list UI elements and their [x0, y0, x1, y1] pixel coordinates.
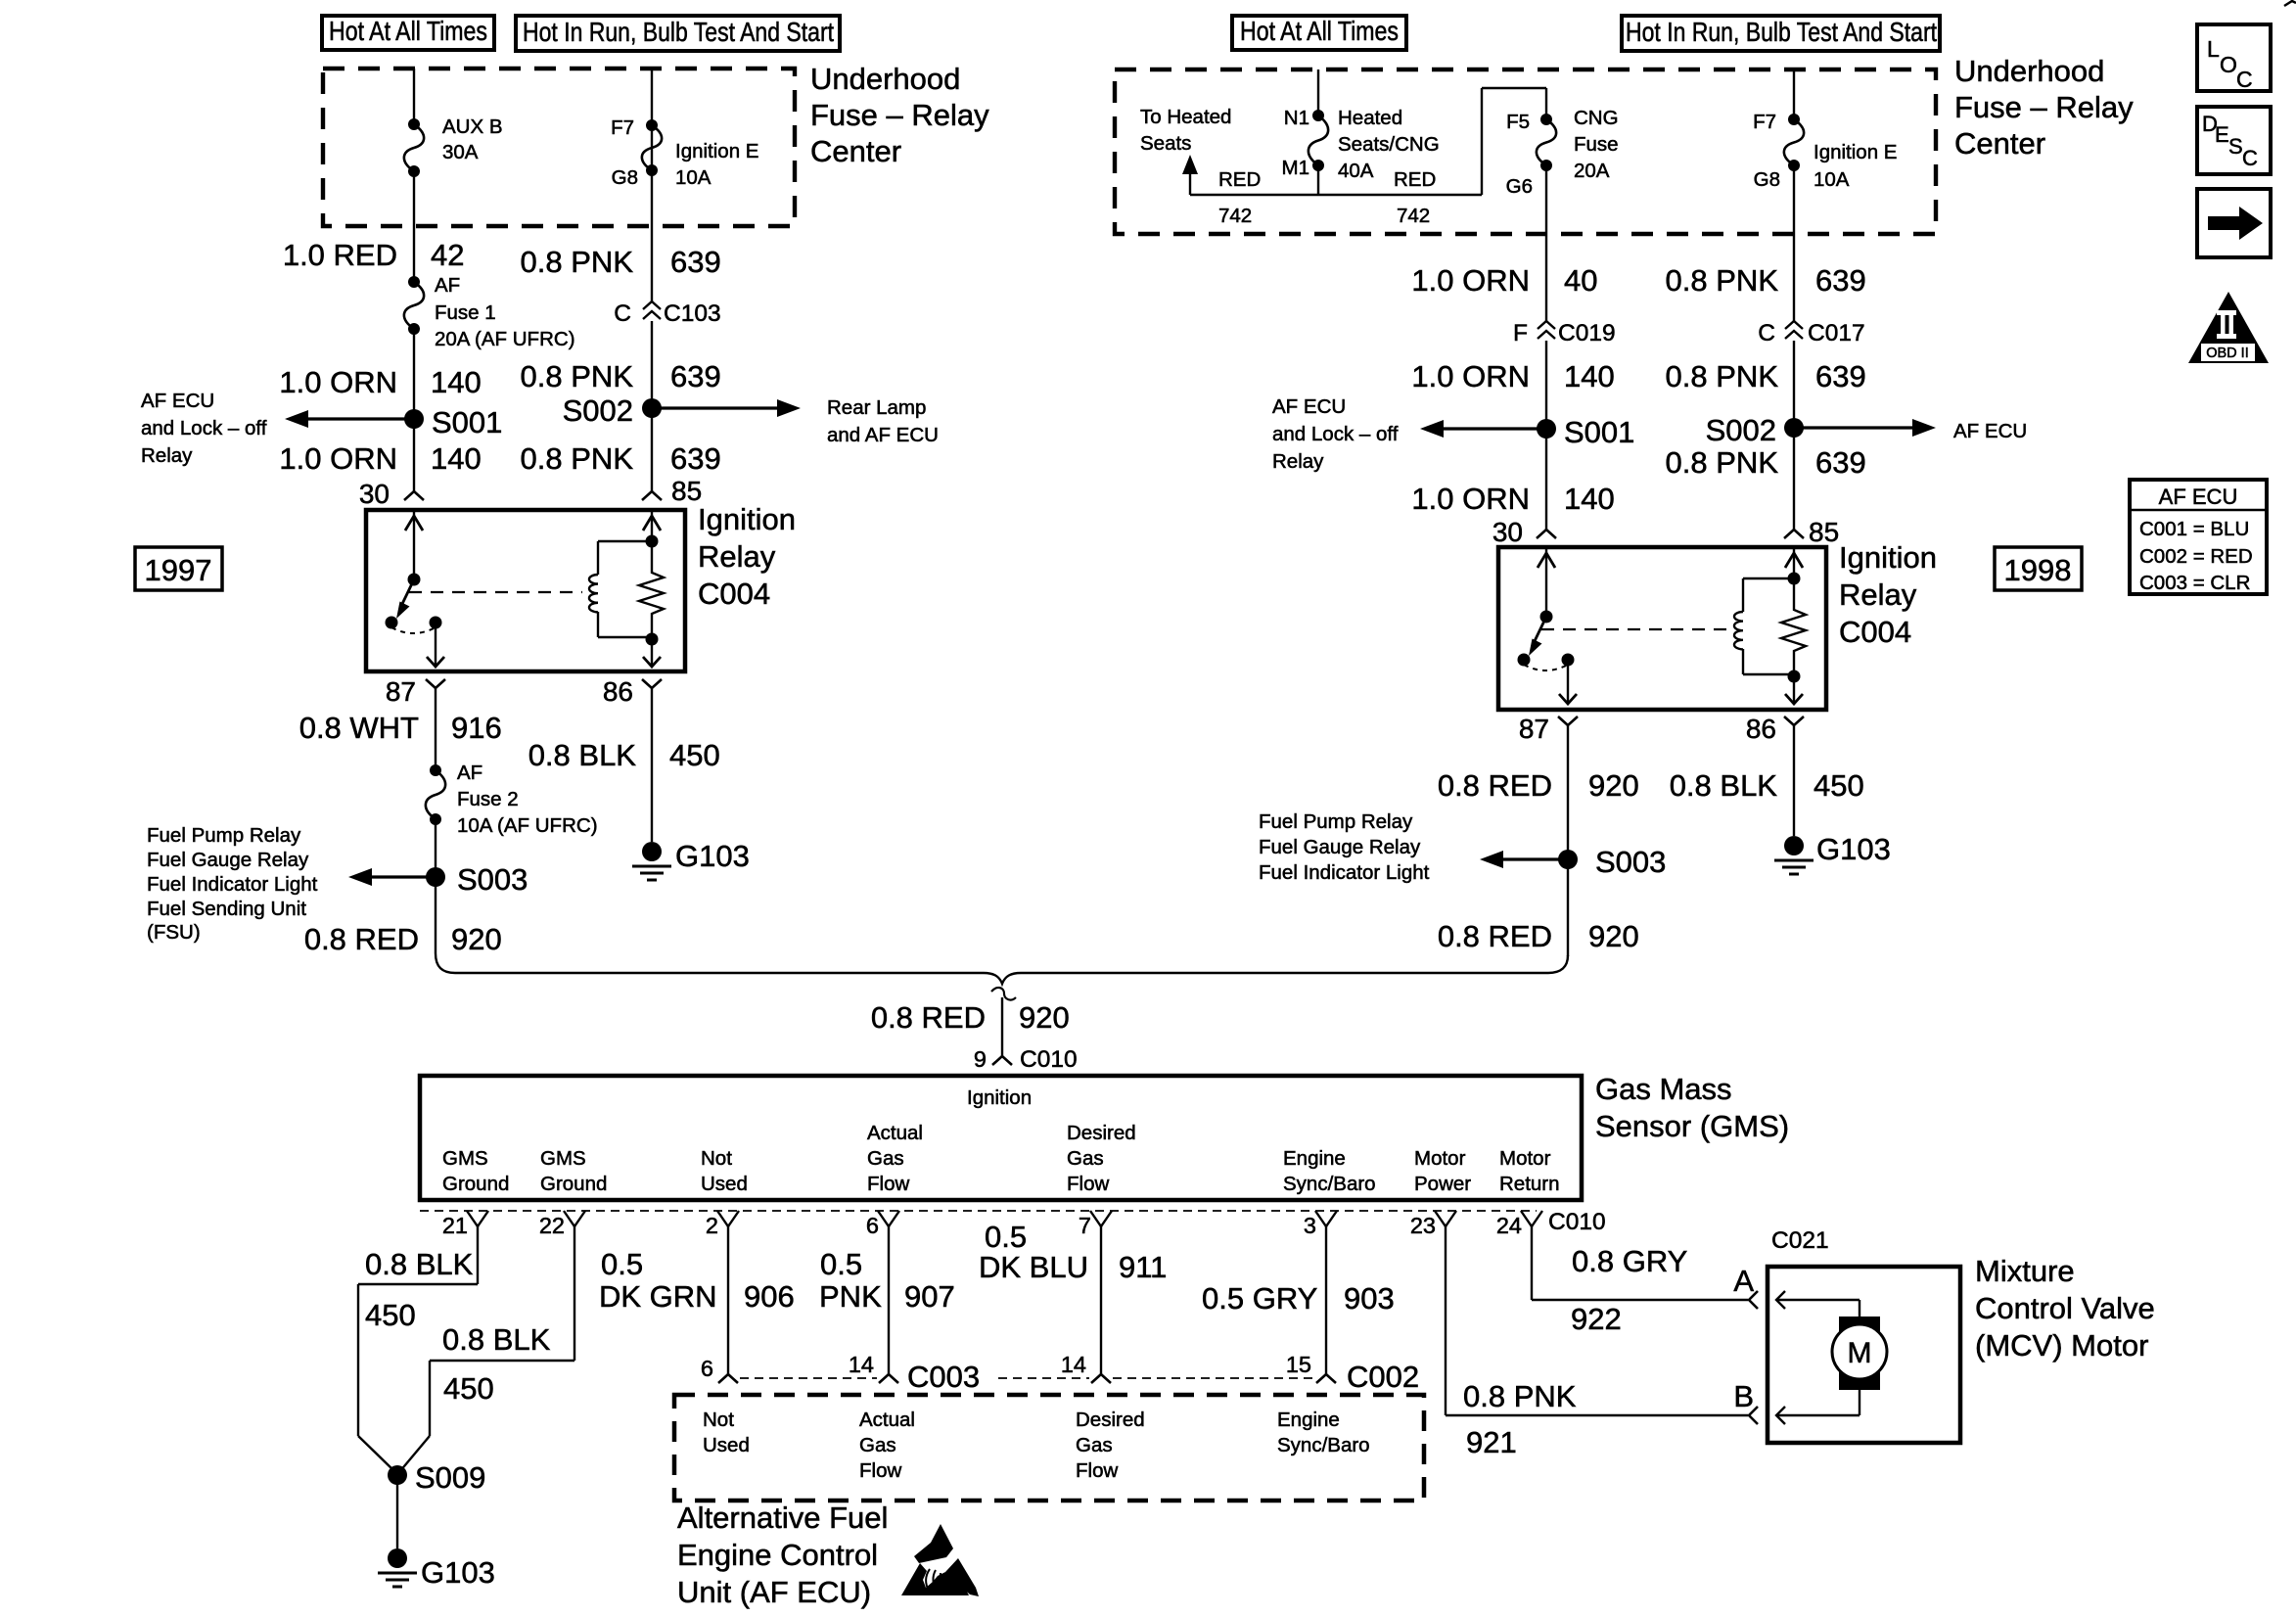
- svg-text:Hot At All Times: Hot At All Times: [1240, 16, 1399, 46]
- pin 15 chevron (C002): [1316, 1374, 1336, 1383]
- label 0.8 RED 920 (common): [871, 1000, 1070, 1035]
- arrow S003 to fuel loads (1997): [348, 868, 436, 886]
- svg-text:Sensor (GMS): Sensor (GMS): [1595, 1109, 1789, 1143]
- fuse CNG Fuse 20A: [1537, 114, 1556, 171]
- svg-text:450: 450: [365, 1298, 416, 1332]
- svg-text:C103: C103: [664, 300, 721, 327]
- svg-text:140: 140: [431, 441, 482, 476]
- label Fuel Pump Relay block (1997): [147, 824, 318, 944]
- pin 30 connector chevron (1998): [1537, 530, 1556, 538]
- svg-text:Ignition: Ignition: [1839, 540, 1937, 575]
- svg-text:10A: 10A: [675, 166, 712, 189]
- svg-text:907: 907: [904, 1279, 955, 1314]
- svg-text:Gas: Gas: [859, 1434, 896, 1456]
- svg-text:40: 40: [1564, 263, 1597, 298]
- label pin 86 (1998): [1746, 714, 1776, 744]
- svg-text:21: 21: [442, 1213, 468, 1238]
- LOC icon box: [2197, 24, 2271, 92]
- arrow S001 to AF ECU and Lock-off Relay: [285, 410, 414, 428]
- label Underhood Fuse-Relay Center (1998): [1954, 54, 2134, 161]
- label 0.8 PNK 639 (row 2, 1997): [521, 359, 721, 393]
- relay 1998 dashed contact arc: [1524, 665, 1568, 670]
- svg-text:639: 639: [1815, 359, 1866, 393]
- label 0.8 BLK 450 (pin 22): [442, 1322, 551, 1406]
- svg-text:(MCV) Motor: (MCV) Motor: [1975, 1328, 2148, 1363]
- svg-text:Mixture: Mixture: [1975, 1254, 2075, 1288]
- label F7 (1998): [1753, 111, 1776, 133]
- wire S001 to relay pin 30: [413, 419, 415, 491]
- label 1.0 ORN 140 (below S001): [279, 441, 481, 476]
- svg-text:Motor: Motor: [1499, 1147, 1551, 1170]
- svg-text:and Lock – off: and Lock – off: [141, 417, 267, 439]
- svg-text:G103: G103: [675, 839, 750, 873]
- wire pin 3 to C002 pin 15: [1325, 1226, 1327, 1374]
- svg-text:Engine Control: Engine Control: [677, 1538, 878, 1572]
- svg-text:Center: Center: [810, 134, 901, 168]
- motor M brushes: [1839, 1317, 1880, 1390]
- label 0.8 RED 920 (1998 lower): [1438, 919, 1639, 953]
- svg-text:0.5 GRY: 0.5 GRY: [1202, 1281, 1317, 1316]
- label 1.0 RED 42: [283, 238, 465, 272]
- svg-text:E: E: [2215, 122, 2229, 147]
- svg-text:Relay: Relay: [1839, 577, 1917, 612]
- svg-text:S001: S001: [432, 405, 502, 439]
- relay 1998 pin 87 internal wire: [1559, 660, 1577, 704]
- OBD II triangle icon: [2188, 292, 2269, 363]
- label 0.8 GRY 922: [1571, 1244, 1687, 1336]
- wire S003 down to brace (1998): [1567, 859, 1569, 956]
- label 0.8 PNK 639 (row 3, 1997): [521, 441, 721, 476]
- svg-text:C010: C010: [1548, 1209, 1606, 1235]
- splice S002 (1998): [1706, 413, 1804, 447]
- wire fuse AUX B to AF Fuse 1: [413, 171, 415, 282]
- label Actual Gas Flow (AF ECU): [859, 1409, 915, 1482]
- label 1.0 ORN 140 (above S001): [279, 365, 481, 399]
- svg-text:AUX B: AUX B: [442, 115, 503, 138]
- svg-text:C004: C004: [698, 577, 770, 611]
- relay 1997 switch pivot: [408, 574, 421, 586]
- svg-text:2: 2: [706, 1213, 718, 1238]
- relay 1997 contact 87: [430, 617, 442, 629]
- header box: Hot At All Times (1997): [322, 16, 494, 50]
- pin 14b chevron: [1091, 1374, 1111, 1383]
- svg-text:To Heated: To Heated: [1140, 106, 1231, 128]
- pin 3 chevron: [1315, 1211, 1337, 1226]
- wire S002 to relay pin 85: [651, 408, 653, 491]
- relay 1997 coil bottom node: [598, 633, 659, 646]
- svg-text:Seats/CNG: Seats/CNG: [1338, 133, 1440, 156]
- svg-text:Underhood: Underhood: [810, 62, 960, 96]
- label M1: [1282, 157, 1309, 179]
- label Mixture Control Valve (MCV) Motor: [1975, 1254, 2155, 1363]
- label GMS Ground (pin 21): [442, 1147, 509, 1195]
- svg-text:C002: C002: [1347, 1360, 1419, 1394]
- svg-text:C002 = RED: C002 = RED: [2139, 545, 2253, 568]
- connector C010 pin 9 chevron: [992, 1056, 1012, 1065]
- MCV pin B chevron: [1749, 1407, 1758, 1424]
- relay 1997 pin 30 internal wire: [405, 510, 423, 579]
- header box: Hot In Run, Bulb Test And Start (1997): [516, 16, 840, 51]
- svg-text:903: 903: [1344, 1281, 1395, 1316]
- svg-text:F: F: [1513, 320, 1528, 346]
- svg-text:911: 911: [1119, 1250, 1167, 1284]
- wire RED 742 horizontal: [1190, 194, 1482, 196]
- svg-text:Fuel Gauge Relay: Fuel Gauge Relay: [147, 849, 309, 871]
- wire S001 to relay pin 30 (1998): [1545, 429, 1547, 530]
- label pin 85 (1998): [1809, 517, 1839, 547]
- wire jog up to CNG fuse: [1482, 88, 1546, 195]
- wire M1 to RED 742 bus: [1317, 165, 1319, 195]
- svg-text:AF ECU: AF ECU: [141, 390, 214, 412]
- splice S001 (1997): [404, 405, 502, 439]
- label AF ECU and Lock-off Relay (1998): [1272, 395, 1399, 473]
- svg-text:639: 639: [670, 359, 721, 393]
- svg-text:Actual: Actual: [867, 1122, 923, 1144]
- svg-text:1.0 ORN: 1.0 ORN: [1411, 482, 1530, 516]
- connector C017: [1785, 321, 1803, 339]
- svg-text:450: 450: [443, 1371, 494, 1406]
- label F7: [611, 116, 634, 139]
- pin 21 chevron: [467, 1211, 488, 1226]
- wire S003 down to brace (1997): [435, 877, 436, 953]
- svg-text:Fuel Gauge Relay: Fuel Gauge Relay: [1259, 836, 1421, 858]
- svg-text:Seats: Seats: [1140, 132, 1191, 155]
- label Desired Gas Flow (pin 7): [1067, 1122, 1136, 1195]
- svg-text:C: C: [2242, 146, 2258, 170]
- svg-text:6: 6: [701, 1356, 713, 1381]
- svg-text:Gas: Gas: [1067, 1147, 1104, 1170]
- label Ignition Relay C004 (1998): [1839, 540, 1937, 649]
- svg-text:0.8 PNK: 0.8 PNK: [1666, 263, 1779, 298]
- svg-text:450: 450: [669, 738, 720, 772]
- label 0.8 PNK 639 (row 1, 1997): [521, 245, 721, 279]
- relay 1998 coil top wire: [1785, 547, 1803, 578]
- label C003: [907, 1360, 980, 1394]
- svg-text:C003 = CLR: C003 = CLR: [2139, 572, 2250, 594]
- label 1998: [1995, 547, 2082, 590]
- svg-text:F7: F7: [611, 116, 634, 139]
- svg-text:Fuel Pump Relay: Fuel Pump Relay: [147, 824, 301, 847]
- fuse AUX B 30A: [404, 118, 424, 177]
- svg-text:Gas: Gas: [1076, 1434, 1113, 1456]
- svg-text:0.8 RED: 0.8 RED: [1438, 919, 1552, 953]
- svg-text:A: A: [1733, 1264, 1754, 1298]
- label 1.0 ORN 140 (1998 above S001): [1411, 359, 1614, 393]
- label Fuel Pump Relay block (1998): [1259, 810, 1430, 884]
- svg-text:0.8 PNK: 0.8 PNK: [1463, 1379, 1577, 1413]
- svg-text:Ignition: Ignition: [698, 502, 796, 536]
- svg-text:Ground: Ground: [442, 1173, 509, 1195]
- label Rear Lamp and AF ECU: [827, 396, 939, 446]
- svg-text:C019: C019: [1558, 320, 1616, 346]
- svg-text:S003: S003: [1595, 845, 1666, 879]
- svg-text:0.8 RED: 0.8 RED: [304, 922, 419, 956]
- wire AF Fuse 2 to S003: [435, 819, 436, 877]
- label pin 86 (1997): [603, 676, 633, 707]
- svg-text:0.8 RED: 0.8 RED: [1438, 768, 1552, 803]
- svg-text:1997: 1997: [145, 553, 212, 587]
- svg-text:Relay: Relay: [1272, 450, 1324, 473]
- svg-text:7: 7: [1079, 1213, 1091, 1238]
- Alternative Fuel Engine Control Unit dashed box: [674, 1395, 1424, 1501]
- svg-text:742: 742: [1218, 205, 1252, 227]
- relay 1998 resistor: [1781, 578, 1806, 674]
- svg-text:0.5: 0.5: [820, 1247, 862, 1281]
- svg-text:639: 639: [1815, 445, 1866, 480]
- svg-text:921: 921: [1466, 1425, 1517, 1459]
- wire to Ignition E fuse (1998): [1793, 69, 1795, 119]
- svg-text:1.0 ORN: 1.0 ORN: [1411, 359, 1530, 393]
- header box: Hot At All Times (1998): [1232, 16, 1406, 50]
- svg-text:Fuse – Relay: Fuse – Relay: [1954, 90, 2134, 124]
- Ignition Relay C004 box (1998): [1498, 547, 1826, 710]
- label C002: [1347, 1360, 1419, 1394]
- svg-text:639: 639: [670, 441, 721, 476]
- svg-text:Rear Lamp: Rear Lamp: [827, 396, 926, 419]
- wire G6 to C019: [1545, 165, 1547, 321]
- svg-text:Center: Center: [1954, 126, 2045, 161]
- svg-text:B: B: [1733, 1379, 1754, 1413]
- svg-text:Not: Not: [701, 1147, 732, 1170]
- svg-text:Underhood: Underhood: [1954, 54, 2104, 88]
- ground G103 (1998): [1774, 832, 1891, 874]
- arrow S002 to AF ECU (1998): [1794, 419, 1936, 437]
- label 0.8 BLK 450 (1998): [1670, 768, 1864, 803]
- svg-text:916: 916: [451, 711, 502, 745]
- svg-text:G103: G103: [1816, 832, 1891, 866]
- svg-text:Desired: Desired: [1076, 1409, 1145, 1431]
- label Not Used (AF ECU): [703, 1409, 750, 1456]
- svg-text:DK BLU: DK BLU: [979, 1250, 1088, 1284]
- svg-text:20A (AF UFRC): 20A (AF UFRC): [435, 328, 575, 350]
- svg-text:Fuse 2: Fuse 2: [457, 788, 519, 810]
- relay 1998 switch arm: [1529, 617, 1546, 656]
- svg-text:C021: C021: [1771, 1227, 1829, 1254]
- label Actual Gas Flow (pin 6): [867, 1122, 923, 1195]
- svg-text:920: 920: [1019, 1000, 1070, 1035]
- label pin 15 (C002): [1286, 1352, 1311, 1377]
- svg-text:Flow: Flow: [859, 1459, 901, 1482]
- relay 1997 contact 87a: [386, 617, 398, 629]
- svg-text:Used: Used: [703, 1434, 750, 1456]
- label G6: [1506, 175, 1533, 198]
- label 0.8 RED 920 (1997): [304, 922, 502, 956]
- svg-text:and AF ECU: and AF ECU: [827, 424, 939, 446]
- AF ECU connector legend box: [2130, 480, 2267, 594]
- motor M: [1832, 1324, 1887, 1379]
- svg-text:L: L: [2207, 36, 2220, 62]
- relay 1997 resistor: [639, 541, 664, 637]
- svg-text:742: 742: [1397, 205, 1430, 227]
- page corner mark: [2284, 1, 2296, 6]
- pin 14 chevron (C003): [879, 1374, 898, 1383]
- wire C017 to S002 (1998): [1793, 341, 1795, 428]
- svg-text:Motor: Motor: [1414, 1147, 1466, 1170]
- svg-text:Flow: Flow: [1076, 1459, 1118, 1482]
- svg-text:Control Valve: Control Valve: [1975, 1291, 2155, 1325]
- svg-text:1.0 ORN: 1.0 ORN: [1411, 263, 1530, 298]
- svg-text:10A: 10A: [1814, 168, 1850, 191]
- arrow S002 to Rear Lamp and AF ECU: [652, 399, 801, 417]
- pin 85 connector chevron (1998): [1784, 530, 1804, 538]
- label 0.8 PNK 921: [1463, 1379, 1577, 1459]
- wire G8 to C017: [1793, 165, 1795, 321]
- svg-text:6: 6: [866, 1213, 879, 1238]
- label 0.8 RED 920 (1998 upper): [1438, 768, 1639, 803]
- wire from Hot At All Times to fuse AUX B: [413, 69, 415, 124]
- svg-text:40A: 40A: [1338, 160, 1374, 182]
- svg-text:Fuel Sending Unit: Fuel Sending Unit: [147, 898, 306, 920]
- svg-text:14: 14: [1061, 1352, 1086, 1377]
- label Motor Power (pin 23): [1414, 1147, 1471, 1195]
- svg-text:639: 639: [1815, 263, 1866, 298]
- svg-text:0.5: 0.5: [985, 1220, 1027, 1254]
- wire pin 7 to C003 pin 14b: [1100, 1226, 1102, 1374]
- label C021: [1771, 1227, 1829, 1254]
- svg-text:30: 30: [359, 479, 390, 509]
- svg-text:AF ECU: AF ECU: [1272, 395, 1346, 418]
- svg-text:C: C: [2236, 67, 2253, 92]
- svg-text:M: M: [1848, 1337, 1872, 1369]
- label Gas Mass Sensor (GMS): [1595, 1072, 1789, 1143]
- label pin 6 (AF ECU): [701, 1356, 713, 1381]
- wire pin 87 to AF Fuse 2: [435, 688, 436, 770]
- svg-text:140: 140: [1564, 359, 1615, 393]
- svg-text:9: 9: [974, 1046, 987, 1072]
- ground G103 (1997): [632, 839, 750, 880]
- svg-text:S002: S002: [1706, 413, 1776, 447]
- label pin 14 (C003 b): [1061, 1352, 1086, 1377]
- svg-text:Fuse – Relay: Fuse – Relay: [810, 98, 989, 132]
- svg-text:0.8 GRY: 0.8 GRY: [1572, 1244, 1687, 1278]
- svg-text:86: 86: [1746, 714, 1776, 744]
- svg-text:S: S: [2228, 134, 2243, 159]
- svg-text:S002: S002: [563, 393, 633, 428]
- pin 86 chevron (1997): [642, 679, 662, 688]
- svg-text:920: 920: [451, 922, 502, 956]
- svg-text:0.8 PNK: 0.8 PNK: [521, 245, 634, 279]
- Ignition Relay C004 box (1997): [366, 510, 685, 671]
- pin 30 connector chevron: [404, 491, 424, 500]
- svg-text:Gas Mass: Gas Mass: [1595, 1072, 1732, 1106]
- svg-text:Hot In Run, Bulb Test And Star: Hot In Run, Bulb Test And Start: [523, 17, 834, 47]
- svg-text:Sync/Baro: Sync/Baro: [1283, 1173, 1376, 1195]
- label N1: [1284, 107, 1309, 129]
- wire pin 86 to G103 (1998): [1793, 725, 1795, 836]
- svg-text:Actual: Actual: [859, 1409, 915, 1431]
- svg-text:Ignition E: Ignition E: [675, 140, 758, 162]
- pin 6 chevron: [878, 1211, 899, 1226]
- svg-text:30A: 30A: [442, 141, 479, 163]
- label 0.8 PNK 639 (row 3, 1998): [1666, 445, 1866, 480]
- fuse AF Fuse 1 20A: [404, 276, 424, 335]
- svg-text:Hot At All Times: Hot At All Times: [329, 16, 487, 46]
- label pin 14 (C003): [849, 1352, 874, 1377]
- label AUX B 30A: [442, 115, 503, 163]
- relay 1998 coil: [1734, 578, 1743, 674]
- svg-text:140: 140: [431, 365, 482, 399]
- relay 1997 coil top node: [598, 535, 659, 548]
- fuse AF Fuse 2 10A: [426, 764, 445, 825]
- svg-text:0.8 PNK: 0.8 PNK: [521, 359, 634, 393]
- svg-text:1.0 RED: 1.0 RED: [283, 238, 397, 272]
- label pin 85: [671, 476, 702, 506]
- svg-text:140: 140: [1564, 482, 1615, 516]
- svg-text:Fuse 1: Fuse 1: [435, 301, 496, 324]
- wire AF Fuse 1 to S001: [413, 329, 415, 419]
- svg-text:0.8 RED: 0.8 RED: [871, 1000, 986, 1035]
- header box: Hot In Run, Bulb Test And Start (1998): [1622, 16, 1940, 51]
- svg-text:0.5: 0.5: [601, 1247, 643, 1281]
- label A: [1733, 1264, 1754, 1298]
- Underhood Fuse-Relay Center dashed box (1997): [323, 69, 795, 226]
- Gas Mass Sensor (GMS) box: [420, 1076, 1582, 1200]
- svg-text:1998: 1998: [2004, 553, 2072, 587]
- label G8 (1998): [1754, 168, 1780, 191]
- label C C103: [614, 300, 720, 327]
- svg-text:C001 = BLU: C001 = BLU: [2139, 518, 2249, 540]
- svg-text:AF ECU: AF ECU: [1953, 420, 2027, 442]
- wire brace to C010 pin 9: [991, 988, 1016, 1056]
- svg-text:and Lock – off: and Lock – off: [1272, 423, 1399, 445]
- pin 87 chevron (1997): [426, 679, 445, 688]
- MCV internal wire A: [1776, 1291, 1860, 1321]
- svg-text:0.8 BLK: 0.8 BLK: [1670, 768, 1778, 803]
- Underhood Fuse-Relay Center dashed box (1998): [1115, 69, 1936, 234]
- pin 22 chevron: [564, 1211, 585, 1226]
- connector C003/C002 face dashed line: [740, 1377, 1314, 1379]
- label 0.8 PNK 639 (row 2, 1998): [1666, 359, 1866, 393]
- svg-text:G6: G6: [1506, 175, 1533, 198]
- label 0.8 PNK 639 (row 1, 1998): [1666, 263, 1866, 298]
- relay 1997 coil top wire: [643, 510, 661, 541]
- label Ignition (GMS pin 9): [967, 1086, 1032, 1109]
- svg-text:Fuel Pump Relay: Fuel Pump Relay: [1259, 810, 1413, 833]
- label 0.8 BLK 450 (1997): [528, 738, 720, 772]
- label To Heated Seats: [1140, 106, 1231, 155]
- svg-text:AF: AF: [457, 762, 482, 784]
- label 1.0 ORN 40: [1411, 263, 1597, 298]
- svg-text:Engine: Engine: [1277, 1409, 1340, 1431]
- svg-text:G8: G8: [612, 166, 638, 189]
- svg-text:C003: C003: [907, 1360, 980, 1394]
- wire S009 to G103: [396, 1475, 398, 1548]
- svg-text:Hot In Run, Bulb Test And Star: Hot In Run, Bulb Test And Start: [1626, 17, 1937, 47]
- pin 23 chevron: [1435, 1211, 1456, 1226]
- label GMS Ground (pin 22): [540, 1147, 607, 1195]
- wire C019 to S001 (1998): [1545, 341, 1547, 429]
- svg-text:Engine: Engine: [1283, 1147, 1346, 1170]
- wire pin 23 to MCV B: [1446, 1226, 1748, 1415]
- svg-text:0.8 BLK: 0.8 BLK: [365, 1247, 474, 1281]
- svg-text:0.8 PNK: 0.8 PNK: [521, 441, 634, 476]
- relay 1997 dashed contact arc: [391, 627, 436, 633]
- svg-text:24: 24: [1496, 1213, 1522, 1238]
- svg-text:906: 906: [744, 1279, 795, 1314]
- svg-text:M1: M1: [1282, 157, 1309, 179]
- label G8: [612, 166, 638, 189]
- label Alternative Fuel Engine Control Unit (AF ECU): [677, 1501, 888, 1609]
- arrow S003 to fuel loads (1998): [1480, 851, 1568, 868]
- wire brace joining S003 1997 and 1998: [436, 953, 1568, 984]
- label 1997: [135, 547, 222, 590]
- label B: [1733, 1379, 1754, 1413]
- svg-text:Unit (AF ECU): Unit (AF ECU): [677, 1575, 871, 1609]
- svg-text:0.8 PNK: 0.8 PNK: [1666, 445, 1779, 480]
- svg-text:G8: G8: [1754, 168, 1780, 191]
- arrow icon box: [2197, 189, 2271, 257]
- svg-text:14: 14: [849, 1352, 874, 1377]
